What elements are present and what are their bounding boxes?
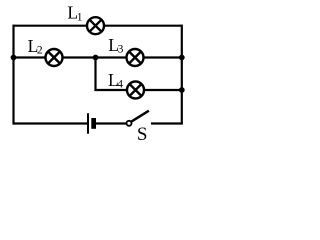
wire left rail	[12, 25, 14, 125]
wire bottom left (corner to battery)	[14, 122, 88, 124]
svg-text:L1: L1	[67, 3, 82, 24]
lamp L2	[46, 49, 63, 66]
node D junction dot (right rail / L4 row)	[179, 87, 185, 93]
svg-text:L3: L3	[108, 35, 123, 56]
wire branch vertical (node B down to row of L4)	[94, 58, 96, 91]
wire middle row (node A to node C through L2 and L3)	[14, 56, 182, 58]
wire L4 row (branch corner to node D)	[94, 89, 181, 91]
lamp L3	[127, 49, 144, 66]
svg-text:S: S	[137, 124, 148, 145]
lamp L1	[87, 17, 104, 34]
svg-text:L4: L4	[108, 70, 123, 91]
node C junction dot (right rail / middle row)	[179, 55, 185, 61]
svg-text:L2: L2	[28, 36, 43, 57]
wire top (left rail top corner to right rail top corner)	[14, 25, 182, 27]
wire bottom right (switch to right rail)	[151, 122, 182, 124]
battery cell (long positive plate)	[87, 113, 89, 134]
wire bottom middle (battery to switch)	[96, 122, 126, 124]
battery cell (short negative plate)	[91, 118, 96, 129]
node B junction dot (middle row / branch to L4)	[93, 55, 99, 61]
node A junction dot (left rail / middle row)	[11, 55, 17, 61]
switch S contact pivot circle	[127, 121, 132, 126]
wire right rail	[181, 25, 183, 125]
lamp L4	[127, 82, 144, 99]
switch S lever arm	[131, 111, 149, 122]
